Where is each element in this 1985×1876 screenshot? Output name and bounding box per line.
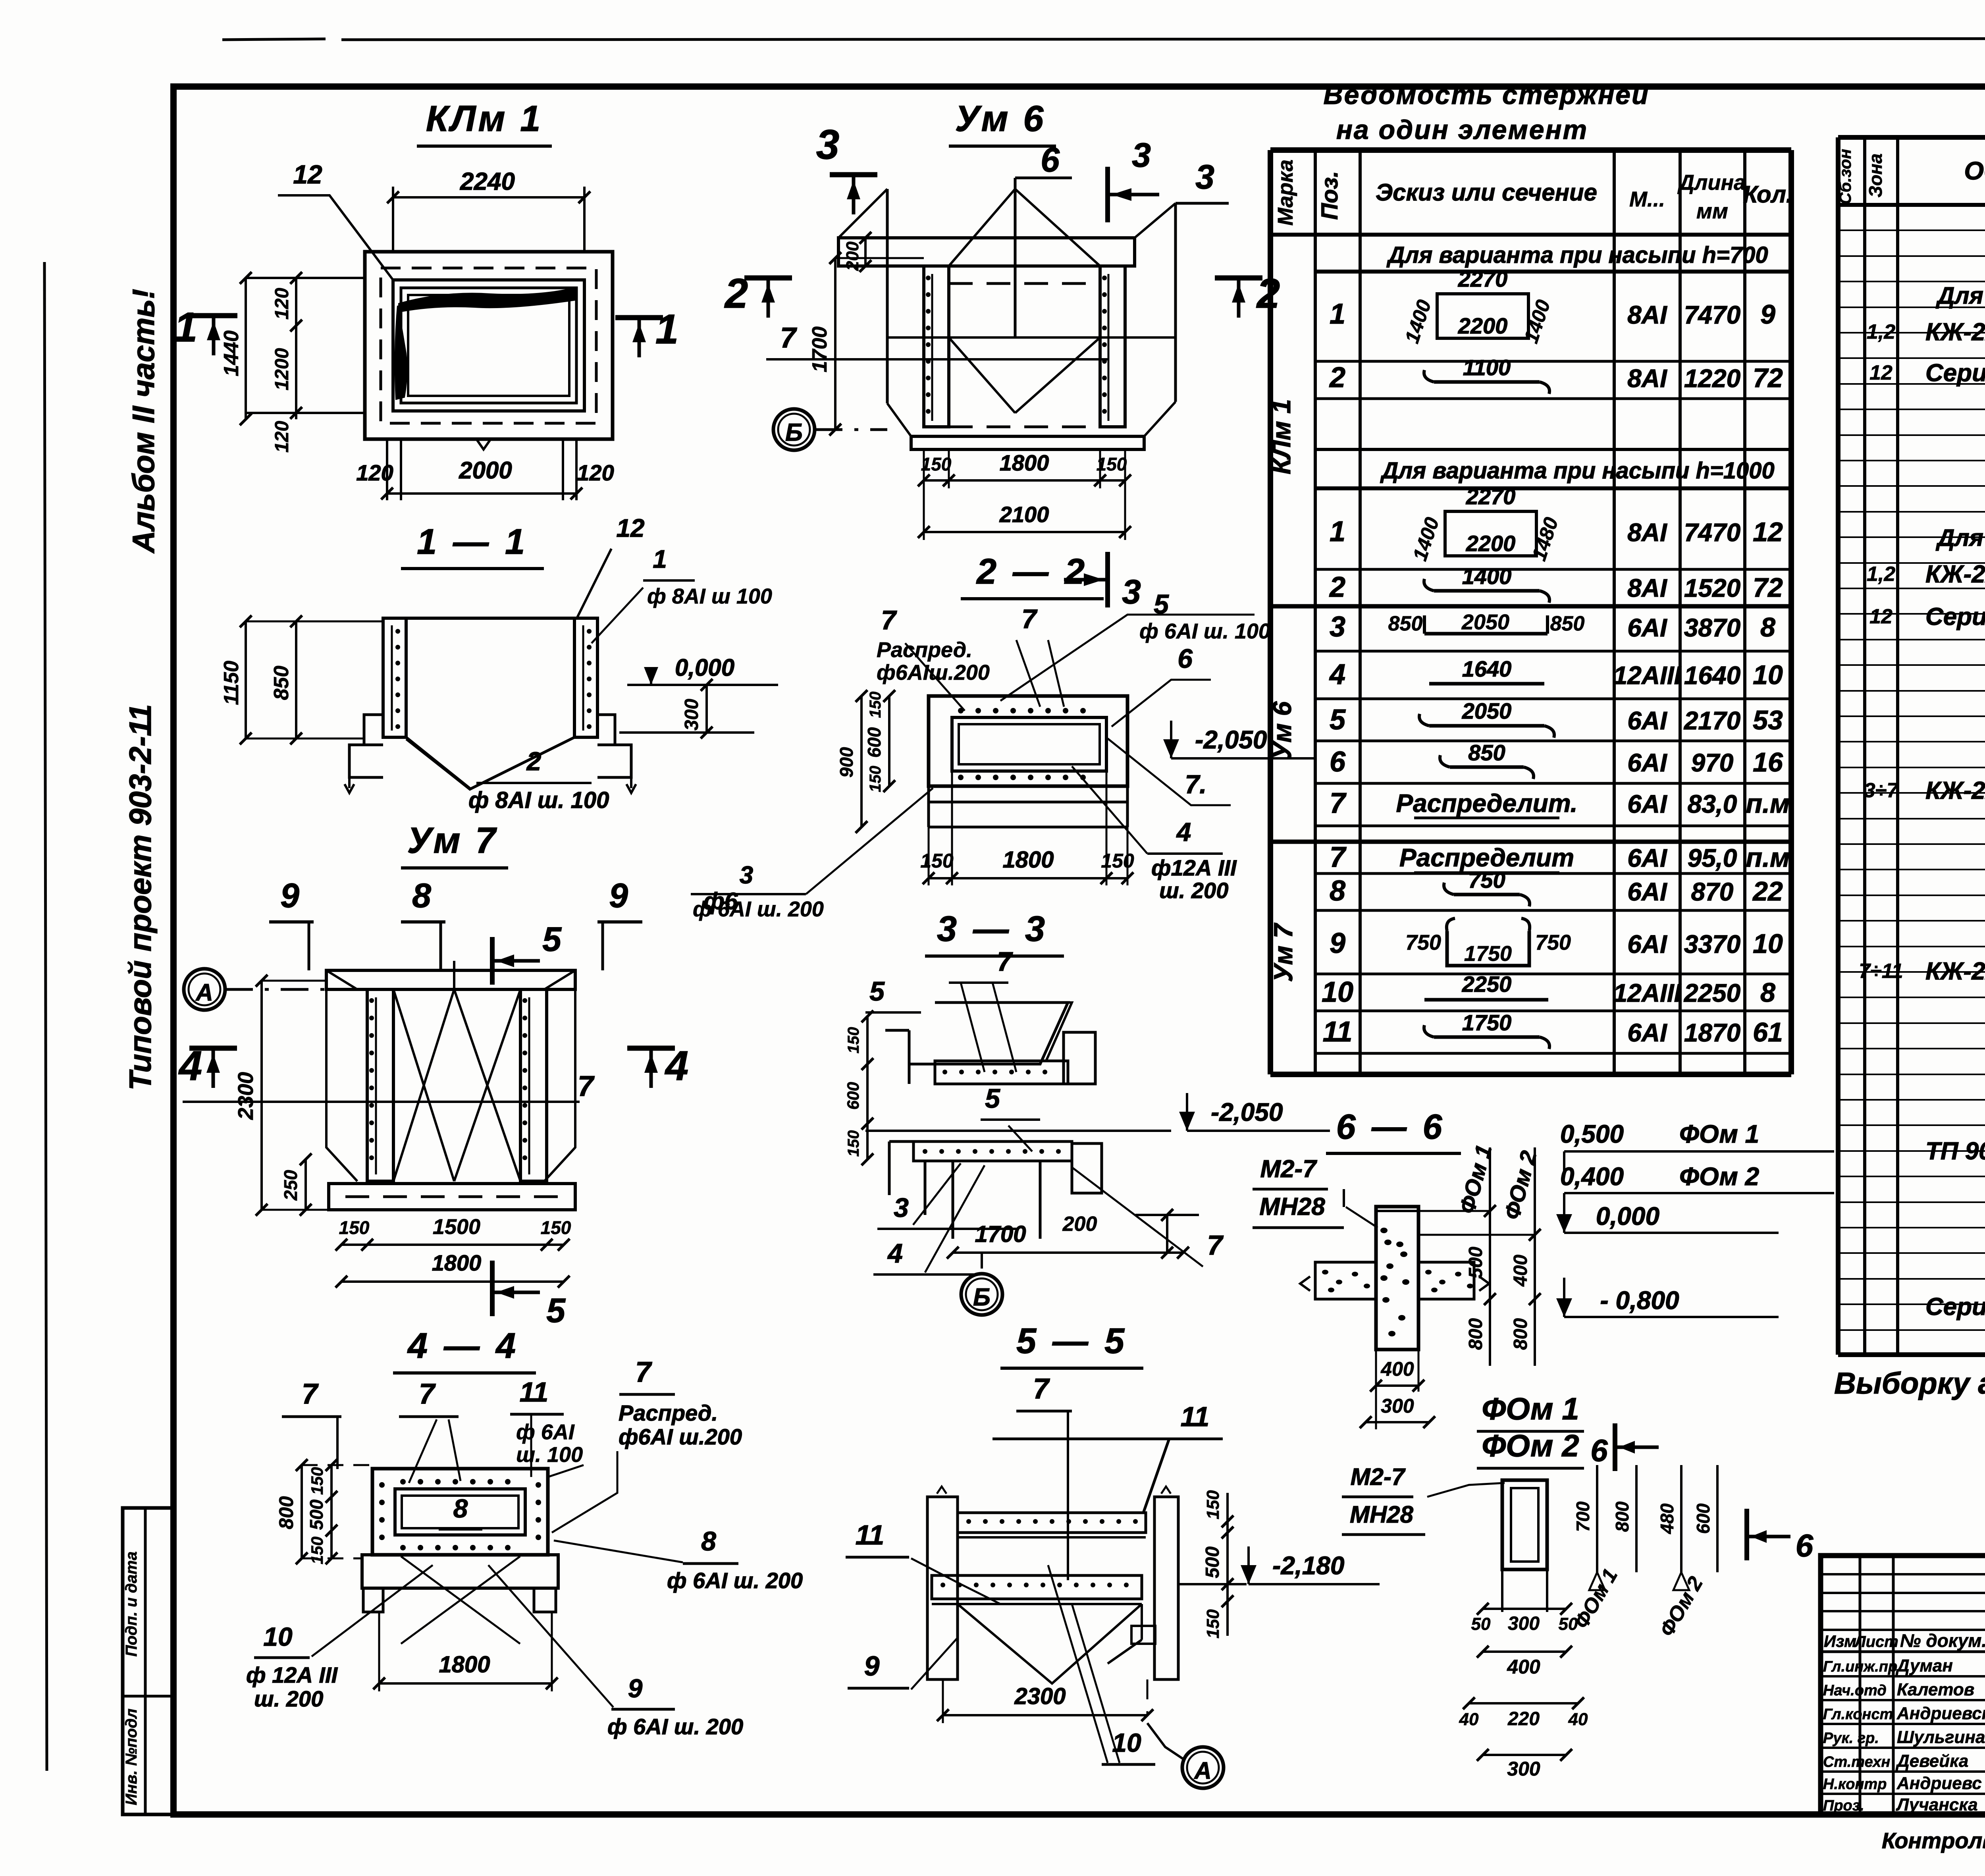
svg-text:ФОм 1: ФОм 1 xyxy=(1679,1120,1759,1148)
svg-text:Распред.: Распред. xyxy=(877,638,972,662)
svg-text:83,0: 83,0 xyxy=(1688,790,1737,818)
svg-text:9: 9 xyxy=(1760,299,1775,330)
svg-text:ф 8АI ш. 100: ф 8АI ш. 100 xyxy=(468,787,609,813)
svg-text:ш. 100: ш. 100 xyxy=(516,1443,583,1467)
svg-text:Для варианта при насыпи h=: Для варианта при насыпи h=700 xyxy=(1935,282,1985,309)
svg-text:400: 400 xyxy=(1510,1255,1531,1287)
svg-text:Ст.техн: Ст.техн xyxy=(1823,1754,1890,1770)
svg-text:200: 200 xyxy=(1062,1213,1097,1236)
svg-text:Длина: Длина xyxy=(1677,171,1746,195)
svg-text:КЖ-22: КЖ-22 xyxy=(1925,561,1985,588)
svg-text:1800: 1800 xyxy=(439,1652,490,1677)
svg-text:2250: 2250 xyxy=(1462,972,1512,997)
svg-text:3: 3 xyxy=(1122,573,1141,611)
svg-text:2 — 2: 2 — 2 xyxy=(976,552,1088,592)
svg-text:2250: 2250 xyxy=(1684,979,1740,1007)
svg-text:6АI: 6АI xyxy=(1627,877,1667,906)
svg-text:ш. 200: ш. 200 xyxy=(254,1686,323,1711)
svg-text:150: 150 xyxy=(867,766,884,792)
svg-text:7: 7 xyxy=(1330,841,1347,873)
svg-text:п.м: п.м xyxy=(1746,843,1790,873)
svg-text:7÷11: 7÷11 xyxy=(1859,960,1903,983)
svg-text:4: 4 xyxy=(1329,659,1345,690)
svg-text:2050: 2050 xyxy=(1462,698,1512,723)
svg-text:ф6АI ш.200: ф6АI ш.200 xyxy=(619,1424,742,1449)
svg-text:1870: 1870 xyxy=(1684,1018,1740,1047)
svg-text:2240: 2240 xyxy=(460,168,515,195)
svg-text:900: 900 xyxy=(836,747,857,777)
svg-text:150: 150 xyxy=(541,1217,571,1238)
svg-text:500: 500 xyxy=(1202,1546,1223,1578)
svg-text:8АI: 8АI xyxy=(1627,574,1667,602)
svg-text:1700: 1700 xyxy=(975,1221,1026,1247)
svg-text:16: 16 xyxy=(1753,747,1783,777)
svg-text:1: 1 xyxy=(1330,298,1345,330)
svg-text:Девейка: Девейка xyxy=(1895,1751,1968,1771)
svg-text:6АI: 6АI xyxy=(1627,1018,1667,1047)
svg-text:9: 9 xyxy=(609,877,628,915)
svg-text:61: 61 xyxy=(1753,1017,1783,1047)
svg-text:6АI: 6АI xyxy=(1627,613,1667,642)
svg-text:1640: 1640 xyxy=(1684,661,1740,690)
svg-text:750: 750 xyxy=(1535,931,1571,954)
svg-text:11: 11 xyxy=(520,1377,549,1407)
svg-text:300: 300 xyxy=(1507,1758,1540,1780)
svg-text:М...: М... xyxy=(1629,187,1665,211)
svg-text:1800: 1800 xyxy=(432,1250,482,1275)
svg-text:10: 10 xyxy=(263,1622,293,1651)
svg-text:850: 850 xyxy=(1468,740,1505,765)
svg-text:11: 11 xyxy=(1181,1401,1210,1432)
svg-text:2: 2 xyxy=(724,270,748,317)
svg-text:4: 4 xyxy=(1176,817,1191,846)
svg-text:0,500: 0,500 xyxy=(1560,1120,1624,1148)
svg-text:Контролвал: Тук: Контролвал: Тук xyxy=(1882,1828,1985,1853)
svg-text:7: 7 xyxy=(578,1070,595,1102)
svg-text:Гл.конст: Гл.конст xyxy=(1823,1706,1893,1723)
svg-text:1440: 1440 xyxy=(220,330,243,376)
svg-text:3÷7: 3÷7 xyxy=(1864,779,1899,802)
svg-text:12АIII: 12АIII xyxy=(1613,661,1682,690)
svg-text:220: 220 xyxy=(1507,1708,1540,1729)
svg-text:Поз.: Поз. xyxy=(1317,171,1343,220)
svg-text:2: 2 xyxy=(1329,571,1345,603)
svg-text:МН28: МН28 xyxy=(1350,1501,1414,1528)
svg-text:2000: 2000 xyxy=(459,457,512,484)
svg-text:2: 2 xyxy=(1329,362,1345,393)
svg-text:ф 8АI ш 100: ф 8АI ш 100 xyxy=(647,584,772,608)
svg-text:Кол.: Кол. xyxy=(1743,181,1792,208)
svg-text:150: 150 xyxy=(845,1130,862,1157)
svg-text:ф6АIш.200: ф6АIш.200 xyxy=(877,661,990,684)
svg-text:Шульгина: Шульгина xyxy=(1897,1728,1985,1747)
svg-text:ФОм 1: ФОм 1 xyxy=(1482,1391,1579,1426)
svg-text:2: 2 xyxy=(526,746,542,776)
svg-text:Инв. №подл: Инв. №подл xyxy=(123,1708,140,1805)
svg-text:3: 3 xyxy=(894,1193,909,1223)
svg-text:6: 6 xyxy=(1330,746,1346,778)
svg-text:7: 7 xyxy=(419,1378,436,1410)
svg-text:5 — 5: 5 — 5 xyxy=(1016,1321,1127,1361)
svg-text:Марка: Марка xyxy=(1274,160,1297,226)
svg-text:-2,050: -2,050 xyxy=(1211,1098,1283,1126)
svg-text:3: 3 xyxy=(1330,611,1345,643)
svg-text:МН28: МН28 xyxy=(1259,1193,1325,1220)
svg-text:120: 120 xyxy=(577,460,614,485)
svg-text:72: 72 xyxy=(1753,363,1783,393)
svg-text:Лист: Лист xyxy=(1854,1633,1898,1650)
svg-text:1: 1 xyxy=(653,545,667,573)
svg-text:1500: 1500 xyxy=(433,1215,480,1239)
svg-text:Ведомость стержней: Ведомость стержней xyxy=(1323,80,1649,110)
svg-text:200: 200 xyxy=(843,241,862,271)
svg-text:2170: 2170 xyxy=(1684,706,1740,735)
svg-text:Обозначение: Обозначение xyxy=(1964,156,1985,185)
svg-text:150: 150 xyxy=(308,1537,326,1564)
svg-text:2300: 2300 xyxy=(1014,1683,1066,1709)
svg-text:10: 10 xyxy=(1322,976,1353,1008)
svg-text:ш. 200: ш. 200 xyxy=(1159,878,1228,903)
svg-text:150: 150 xyxy=(339,1217,370,1238)
svg-text:Подп. и дата: Подп. и дата xyxy=(123,1552,140,1657)
svg-text:9: 9 xyxy=(280,877,299,915)
svg-text:7: 7 xyxy=(780,322,797,354)
svg-text:850: 850 xyxy=(1388,612,1423,635)
svg-text:1750: 1750 xyxy=(1462,1010,1512,1035)
svg-text:8: 8 xyxy=(412,877,431,915)
svg-text:12: 12 xyxy=(1869,361,1892,384)
svg-text:Н.контр: Н.контр xyxy=(1823,1776,1887,1793)
svg-text:п.м: п.м xyxy=(1746,789,1790,819)
svg-text:Проз.: Проз. xyxy=(1823,1797,1864,1814)
svg-text:ф 6АI: ф 6АI xyxy=(516,1420,575,1444)
svg-text:12: 12 xyxy=(1869,605,1892,628)
svg-text:300: 300 xyxy=(681,699,702,731)
svg-text:мм: мм xyxy=(1696,199,1728,223)
svg-text:600: 600 xyxy=(1693,1503,1713,1534)
svg-text:10: 10 xyxy=(1753,929,1783,959)
svg-text:ТП 903-2-11 КЖИ-МН28: ТП 903-2-11 КЖИ-МН28 xyxy=(1925,1138,1985,1165)
svg-text:Эскиз или сечение: Эскиз или сечение xyxy=(1376,179,1597,206)
svg-text:ф 6АI ш. 200: ф 6АI ш. 200 xyxy=(607,1714,743,1739)
svg-text:600: 600 xyxy=(864,727,885,758)
svg-text:120: 120 xyxy=(272,288,293,320)
svg-text:Ум 6: Ум 6 xyxy=(1267,701,1297,760)
svg-text:2270: 2270 xyxy=(1458,266,1508,291)
svg-text:2050: 2050 xyxy=(1461,610,1509,634)
svg-text:№ докум.: № докум. xyxy=(1900,1630,1985,1651)
svg-text:Распределит.: Распределит. xyxy=(1396,789,1577,817)
svg-text:1220: 1220 xyxy=(1684,364,1740,393)
svg-text:8: 8 xyxy=(1760,978,1775,1008)
svg-text:500: 500 xyxy=(1465,1247,1486,1278)
svg-text:Для варианта при насыпи h=: Для варианта при насыпи h=1000 xyxy=(1380,458,1775,484)
svg-text:7: 7 xyxy=(635,1356,652,1388)
svg-text:Для варианта при насыпи h=: Для варианта при насыпи h=700 xyxy=(1386,242,1768,268)
svg-text:Гл.инж.пр: Гл.инж.пр xyxy=(1823,1658,1897,1675)
svg-text:Альбом II часть!: Альбом II часть! xyxy=(126,289,161,553)
svg-text:9: 9 xyxy=(628,1674,643,1703)
svg-text:1640: 1640 xyxy=(1462,656,1512,681)
svg-text:5: 5 xyxy=(542,920,562,958)
svg-text:2200: 2200 xyxy=(1466,531,1516,556)
svg-text:КЖ-22: КЖ-22 xyxy=(1925,777,1985,804)
svg-text:120: 120 xyxy=(272,421,293,453)
svg-text:ф 6АI ш. 100: ф 6АI ш. 100 xyxy=(1139,619,1270,643)
svg-text:12: 12 xyxy=(616,514,644,542)
svg-text:1 — 1: 1 — 1 xyxy=(417,522,528,562)
svg-text:4: 4 xyxy=(665,1043,688,1089)
svg-text:3370: 3370 xyxy=(1684,930,1740,958)
svg-text:150: 150 xyxy=(1097,454,1127,474)
svg-text:1200: 1200 xyxy=(272,348,293,390)
svg-text:8: 8 xyxy=(453,1494,468,1523)
svg-text:Калетов: Калетов xyxy=(1897,1680,1974,1699)
svg-text:7: 7 xyxy=(881,605,897,635)
svg-text:870: 870 xyxy=(1691,877,1734,906)
svg-text:7.: 7. xyxy=(1185,769,1206,799)
svg-text:480: 480 xyxy=(1657,1503,1677,1534)
svg-text:2300: 2300 xyxy=(234,1072,258,1120)
svg-text:3 — 3: 3 — 3 xyxy=(937,909,1048,949)
svg-text:7470: 7470 xyxy=(1684,518,1740,547)
svg-text:ф 12А III: ф 12А III xyxy=(246,1662,338,1687)
svg-text:300: 300 xyxy=(1381,1395,1414,1417)
svg-text:600: 600 xyxy=(844,1082,862,1110)
svg-text:Лучанска: Лучанска xyxy=(1896,1795,1978,1814)
svg-text:800: 800 xyxy=(275,1496,297,1529)
svg-text:7: 7 xyxy=(1021,604,1038,634)
svg-text:1,2: 1,2 xyxy=(1867,320,1895,343)
svg-text:8АI: 8АI xyxy=(1627,518,1667,547)
svg-text:40: 40 xyxy=(1568,1710,1588,1729)
svg-text:400: 400 xyxy=(1507,1656,1540,1678)
svg-text:4 — 4: 4 — 4 xyxy=(407,1326,519,1366)
svg-text:Нач.отд: Нач.отд xyxy=(1823,1682,1887,1699)
svg-text:8: 8 xyxy=(1330,875,1345,907)
svg-text:6АI: 6АI xyxy=(1627,930,1667,958)
svg-text:1: 1 xyxy=(1330,516,1345,548)
svg-text:6: 6 xyxy=(1796,1528,1813,1563)
svg-text:6АI: 6АI xyxy=(1627,748,1667,777)
svg-text:6АI: 6АI xyxy=(1627,844,1667,872)
svg-text:0,000: 0,000 xyxy=(675,654,734,681)
svg-text:Б: Б xyxy=(973,1284,991,1311)
svg-text:-2,180: -2,180 xyxy=(1272,1551,1344,1580)
svg-text:8АI: 8АI xyxy=(1627,364,1667,393)
svg-text:150: 150 xyxy=(1203,1490,1223,1519)
svg-text:ф6: ф6 xyxy=(703,888,738,914)
svg-text:800: 800 xyxy=(1612,1501,1632,1532)
svg-text:120: 120 xyxy=(356,460,393,485)
svg-text:6: 6 xyxy=(1041,141,1060,179)
svg-text:6АI: 6АI xyxy=(1627,790,1667,818)
svg-text:970: 970 xyxy=(1691,748,1734,777)
svg-text:10: 10 xyxy=(1753,660,1783,690)
svg-text:Ум 6: Ум 6 xyxy=(955,98,1046,139)
svg-text:7: 7 xyxy=(1330,787,1347,819)
svg-text:1: 1 xyxy=(174,304,197,351)
svg-text:Зона: Зона xyxy=(1865,153,1886,197)
svg-text:ФОм 2: ФОм 2 xyxy=(1482,1428,1579,1463)
svg-text:9: 9 xyxy=(1330,927,1345,959)
svg-text:4: 4 xyxy=(178,1043,202,1089)
svg-text:50: 50 xyxy=(1471,1614,1491,1634)
svg-text:750: 750 xyxy=(1405,931,1441,954)
svg-text:53: 53 xyxy=(1753,705,1783,735)
svg-text:400: 400 xyxy=(1380,1358,1414,1380)
svg-text:А: А xyxy=(195,979,213,1006)
svg-text:7: 7 xyxy=(1033,1373,1050,1405)
svg-text:6АI: 6АI xyxy=(1627,706,1667,735)
svg-text:-2,050: -2,050 xyxy=(1195,725,1267,754)
svg-text:7470: 7470 xyxy=(1684,301,1740,329)
svg-text:КЖ-22: КЖ-22 xyxy=(1925,958,1985,985)
svg-text:150: 150 xyxy=(845,1027,862,1054)
svg-text:ф12А III: ф12А III xyxy=(1151,855,1237,880)
svg-text:3: 3 xyxy=(1132,136,1151,174)
svg-text:Рук. гр.: Рук. гр. xyxy=(1823,1730,1879,1747)
svg-text:250: 250 xyxy=(280,1170,301,1201)
svg-text:1,2: 1,2 xyxy=(1867,563,1895,586)
svg-text:2100: 2100 xyxy=(999,502,1049,527)
svg-text:3: 3 xyxy=(816,121,839,168)
svg-text:150: 150 xyxy=(308,1467,326,1495)
svg-text:3: 3 xyxy=(740,862,753,889)
svg-text:3: 3 xyxy=(1195,158,1214,196)
svg-text:8: 8 xyxy=(1760,612,1775,642)
svg-text:КЛм 1: КЛм 1 xyxy=(1266,399,1296,474)
svg-text:ФОм 2: ФОм 2 xyxy=(1679,1162,1759,1191)
svg-text:Типовой проект 903-2-11: Типовой проект 903-2-11 xyxy=(123,704,158,1090)
svg-text:3870: 3870 xyxy=(1684,613,1740,642)
svg-text:5: 5 xyxy=(869,976,885,1006)
svg-text:40: 40 xyxy=(1459,1710,1479,1729)
svg-text:- 0,800: - 0,800 xyxy=(1600,1286,1679,1315)
svg-text:КЛм 1: КЛм 1 xyxy=(426,98,543,139)
svg-text:Андриевская: Андриевская xyxy=(1896,1704,1985,1723)
svg-text:5: 5 xyxy=(546,1292,566,1330)
svg-text:150: 150 xyxy=(921,454,952,474)
svg-text:150: 150 xyxy=(867,692,884,718)
svg-text:2270: 2270 xyxy=(1466,484,1516,509)
svg-text:800: 800 xyxy=(1510,1318,1531,1350)
svg-text:Сб.зон: Сб.зон xyxy=(1836,149,1854,204)
svg-text:300: 300 xyxy=(1508,1613,1540,1634)
svg-text:6: 6 xyxy=(1178,644,1193,674)
svg-text:5: 5 xyxy=(1330,704,1346,736)
svg-text:Распред.: Распред. xyxy=(619,1400,718,1425)
svg-text:1100: 1100 xyxy=(1463,355,1511,380)
svg-text:850: 850 xyxy=(1550,612,1585,635)
svg-text:1: 1 xyxy=(655,306,678,353)
svg-text:5: 5 xyxy=(985,1084,1000,1114)
svg-text:72: 72 xyxy=(1753,573,1783,603)
svg-text:750: 750 xyxy=(1468,868,1505,893)
svg-text:500: 500 xyxy=(306,1499,327,1530)
svg-text:на один элемент: на один элемент xyxy=(1336,115,1588,145)
svg-text:700: 700 xyxy=(1573,1501,1593,1532)
svg-text:12АIII: 12АIII xyxy=(1613,979,1682,1007)
svg-text:Серия 3,400-6: Серия 3,400-6 xyxy=(1925,603,1985,630)
svg-text:М2-7: М2-7 xyxy=(1260,1155,1317,1183)
svg-text:Ум 7: Ум 7 xyxy=(407,820,498,861)
svg-text:Изм: Изм xyxy=(1824,1632,1856,1650)
svg-text:Серия 3,400-6: Серия 3,400-6 xyxy=(1925,359,1985,387)
svg-text:850: 850 xyxy=(270,666,293,700)
svg-text:Выборку арматуры на КЛм: Выборку арматуры на КЛм 1, Ум 6, Ум 7 см… xyxy=(1834,1367,1985,1400)
svg-text:КЖ-22: КЖ-22 xyxy=(1925,318,1985,346)
svg-text:7: 7 xyxy=(1207,1230,1224,1261)
svg-text:Серия 1.400-6/76: Серия 1.400-6/76 xyxy=(1925,1293,1985,1321)
svg-text:1150: 1150 xyxy=(220,661,243,705)
svg-text:1400: 1400 xyxy=(1462,564,1512,589)
svg-text:1520: 1520 xyxy=(1684,574,1740,602)
svg-text:11: 11 xyxy=(856,1519,885,1550)
svg-text:22: 22 xyxy=(1752,876,1783,906)
svg-text:4: 4 xyxy=(887,1238,903,1269)
svg-text:ф 6АI ш. 200: ф 6АI ш. 200 xyxy=(667,1568,803,1593)
svg-text:7: 7 xyxy=(302,1378,319,1410)
svg-text:2200: 2200 xyxy=(1458,313,1508,338)
svg-text:1800: 1800 xyxy=(1000,450,1049,475)
svg-text:12: 12 xyxy=(1753,517,1783,547)
svg-text:11: 11 xyxy=(1323,1016,1353,1048)
svg-text:1700: 1700 xyxy=(808,326,831,372)
svg-text:А: А xyxy=(1193,1757,1211,1784)
svg-text:7: 7 xyxy=(997,947,1013,977)
svg-text:95,0: 95,0 xyxy=(1688,844,1737,872)
svg-text:Для варианта при насыпи h=: Для варианта при насыпи h=1000 xyxy=(1935,524,1985,551)
svg-text:8АI: 8АI xyxy=(1627,301,1667,329)
svg-text:9: 9 xyxy=(864,1650,880,1681)
svg-text:6: 6 xyxy=(1590,1433,1608,1468)
svg-text:2: 2 xyxy=(1256,270,1280,317)
svg-text:8: 8 xyxy=(701,1526,716,1556)
svg-text:Думан: Думан xyxy=(1895,1656,1953,1675)
svg-text:0,400: 0,400 xyxy=(1560,1162,1624,1191)
svg-text:150: 150 xyxy=(1203,1609,1223,1639)
svg-text:Андриевс: Андриевс xyxy=(1896,1774,1982,1793)
svg-text:Б: Б xyxy=(785,419,803,446)
svg-text:1800: 1800 xyxy=(1002,847,1054,873)
svg-text:12: 12 xyxy=(293,160,322,189)
svg-text:150: 150 xyxy=(920,850,954,872)
svg-text:800: 800 xyxy=(1465,1318,1486,1350)
svg-text:6 — 6: 6 — 6 xyxy=(1336,1107,1445,1146)
svg-text:0,000: 0,000 xyxy=(1596,1202,1659,1230)
svg-text:Ум 7: Ум 7 xyxy=(1268,922,1298,982)
svg-text:1750: 1750 xyxy=(1464,942,1512,966)
svg-text:М2-7: М2-7 xyxy=(1351,1463,1406,1490)
